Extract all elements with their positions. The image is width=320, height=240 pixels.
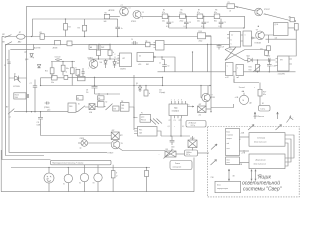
wire junction down — [257, 60, 259, 64]
capacitor C6 — [217, 44, 222, 49]
svg-text:→: → — [158, 154, 160, 156]
svg-text:1000: 1000 — [171, 146, 175, 148]
node y85 r1 — [200, 85, 201, 86]
motor M1 — [239, 95, 248, 104]
capacitor C5 — [219, 19, 224, 28]
wire RP3 right — [176, 153, 185, 155]
capacitor C15 — [92, 77, 98, 94]
potentiometer RP1 arrow — [254, 66, 261, 72]
resistor R16 — [61, 65, 65, 71]
wire y59 — [88, 58, 120, 60]
svg-text:ТВ: ТВ — [121, 143, 123, 145]
box battery — [215, 181, 241, 192]
wire R1 top — [65, 19, 67, 24]
resistor R12 — [265, 50, 269, 55]
wire R1 bottom — [65, 30, 67, 37]
svg-text:4: 4 — [178, 99, 179, 101]
capacitor C10 — [27, 94, 28, 98]
lamp HL1 — [81, 140, 88, 147]
label U5 pins — [276, 59, 293, 66]
svg-text:КПР: КПР — [120, 135, 123, 137]
capacitor C12 — [55, 59, 62, 60]
transistor Q5 — [89, 60, 98, 69]
svg-text:реле: реле — [227, 162, 230, 164]
transistor Q7 — [111, 140, 120, 149]
wire U10 out arrow — [188, 106, 195, 107]
svg-text:Точный: Точный — [239, 86, 245, 89]
svg-text:2к: 2к — [121, 28, 123, 30]
svg-text:КД1: КД1 — [247, 56, 250, 58]
photoresistor arrow 4 — [211, 160, 217, 166]
node C8 top — [269, 59, 270, 60]
transistor Q5 bar — [92, 59, 96, 68]
svg-text:100к: 100к — [66, 68, 70, 70]
node v134 bus — [133, 85, 134, 86]
potentiometer RP2 cross — [111, 132, 119, 140]
svg-text:Сеть: Сеть — [260, 108, 266, 110]
wire U3 out to Q4 — [253, 37, 255, 39]
wire R17 — [71, 62, 73, 86]
wire drop HL2 — [48, 168, 50, 174]
svg-text:0В: 0В — [233, 176, 235, 178]
wire U10 pins top — [172, 101, 186, 104]
switch SA5 — [106, 104, 113, 110]
wire left margin line 1 — [2, 37, 51, 160]
wire PSU loop3 — [285, 143, 288, 166]
node VD7 top — [139, 85, 140, 86]
dashed enclosure — [208, 127, 300, 197]
svg-text:R: R — [115, 57, 116, 59]
wire vertical x211 — [210, 36, 212, 112]
potentiometer RP3 — [165, 151, 176, 157]
wire HL3 down — [67, 183, 69, 192]
wire inner loop to R cluster — [104, 18, 118, 20]
svg-text:552: 552 — [159, 89, 162, 91]
svg-text:осветительной: осветительной — [242, 180, 280, 187]
flip-flop U7 — [236, 65, 244, 76]
wire lamp200 right — [198, 152, 210, 154]
svg-text:220: 220 — [121, 108, 124, 110]
wire RP1 down — [257, 70, 259, 73]
capacitor C4 — [202, 16, 207, 28]
lamp HL1 cross — [82, 141, 87, 146]
wire R2 bottom — [84, 31, 86, 37]
node psu17 — [243, 150, 244, 151]
wire X upper branch — [245, 49, 266, 52]
svg-text:200к: 200к — [199, 41, 203, 43]
svg-text:ВК: ВК — [77, 98, 79, 100]
node y111 c — [34, 111, 35, 112]
svg-text:R5: R5 — [163, 10, 165, 12]
svg-text:ДВ: ДВ — [250, 103, 252, 105]
box relay B7 — [138, 127, 158, 137]
wire R20 — [109, 44, 111, 59]
svg-text:910: 910 — [249, 69, 252, 71]
transistor Q6 bar — [204, 86, 208, 108]
wire U4 top — [288, 28, 294, 30]
box label B9 — [77, 96, 84, 100]
counter U8 — [120, 53, 132, 67]
node R1/top — [65, 18, 66, 19]
wire R4 to Q1 — [110, 15, 120, 17]
svg-text:82к: 82к — [263, 94, 266, 96]
svg-text:220 Вольт: 220 Вольт — [253, 116, 265, 118]
wire Q6 base — [201, 86, 203, 98]
wire R9 right — [206, 35, 212, 37]
resistor R2 — [83, 25, 87, 31]
wire drop HL4 — [84, 165, 86, 174]
switch SA1 — [2, 35, 11, 38]
wire B5 right — [129, 107, 138, 118]
diode VD6 — [113, 59, 116, 68]
resistor R15 — [50, 68, 54, 74]
svg-text:40Р: 40Р — [112, 130, 115, 132]
node y77 b — [162, 77, 163, 78]
wire y136 — [161, 135, 190, 137]
wire U6 down — [234, 76, 259, 83]
photoresistor arrow 2 — [276, 125, 282, 131]
node Q3 emitter — [258, 26, 259, 27]
fuse FU2 cross — [89, 104, 95, 110]
wire emerg down arrow — [228, 169, 229, 181]
wire left bottom corner — [0, 150, 2, 192]
gate U4 — [274, 23, 289, 36]
rounded box lampmain — [170, 161, 192, 170]
svg-text:40к: 40к — [171, 149, 174, 151]
capacitor C8 — [267, 60, 272, 72]
box PSU control — [226, 129, 240, 156]
svg-text:R10: R10 — [45, 70, 48, 72]
wire psu17 — [240, 150, 250, 152]
capacitor C13 — [82, 68, 85, 77]
lamp HL3 — [64, 174, 72, 182]
wire bus y85.5 — [41, 85, 212, 87]
wire HL1 right — [88, 142, 112, 144]
node U9 wire — [161, 56, 162, 57]
svg-text:R31: R31 — [166, 149, 169, 151]
box small B2 — [78, 76, 86, 80]
svg-text:Д814: Д814 — [25, 59, 28, 61]
svg-text:100В: 100В — [37, 125, 41, 127]
svg-text:Переходные (вытяжные) у-? ламп: Переходные (вытяжные) у-? лампы — [52, 163, 84, 165]
svg-text:40Т: 40Т — [199, 104, 202, 106]
svg-text:АТ2М: АТ2М — [53, 46, 58, 49]
node y85 r2 — [209, 85, 210, 86]
box small B8 — [146, 42, 151, 47]
svg-text:напряж: напряж — [227, 138, 232, 140]
svg-text:Блок: Блок — [227, 131, 231, 133]
diode VD2 — [248, 58, 252, 62]
svg-text:ПМ2: ПМ2 — [101, 47, 104, 49]
node lampbus b — [68, 167, 69, 168]
wire bus diagonal taps — [150, 119, 162, 125]
wire ladder rail left — [169, 27, 214, 29]
label U1 pins — [154, 43, 156, 48]
wire y61 — [51, 61, 75, 63]
svg-text:ХХ Гц: ХХ Гц — [186, 154, 190, 156]
wire v234 — [233, 79, 235, 83]
svg-text:8: 8 — [181, 99, 182, 101]
wire HL2 down — [48, 183, 50, 192]
transistor Q2 — [133, 11, 141, 19]
svg-text:блок питания: блок питания — [254, 164, 266, 166]
capacitor C18 — [170, 136, 175, 145]
svg-text:~: ~ — [293, 117, 294, 119]
capacitor C3 — [184, 16, 189, 28]
capacitor C19 — [132, 41, 139, 45]
inverter U5 — [278, 56, 290, 71]
transistor Q4 bar — [258, 32, 262, 40]
box B5 — [120, 103, 129, 112]
node RP2 wire — [114, 135, 115, 136]
wire R13 top — [259, 83, 261, 90]
wire R6-R7 — [185, 15, 197, 17]
fuse FU1 (AT oval) — [17, 34, 25, 39]
wire U10 col2 — [180, 118, 182, 136]
svg-text:С1: С1 — [4, 65, 6, 67]
wire R11 down — [268, 51, 270, 54]
wire R14 — [41, 78, 65, 86]
node v192 top — [192, 51, 193, 52]
wire lamp bus — [11, 167, 150, 169]
node bus85 a — [40, 85, 41, 86]
svg-text:В2: В2 — [262, 103, 264, 105]
svg-text:Р1: Р1 — [141, 113, 143, 115]
wire R7-R8 — [203, 15, 214, 17]
svg-text:R14: R14 — [199, 31, 202, 33]
node y71 a — [257, 71, 258, 72]
svg-text:к155: к155 — [138, 64, 141, 66]
wire switch2 branch — [10, 44, 33, 49]
svg-text:VТ: VТ — [211, 94, 213, 96]
rounded box lamp200 — [185, 150, 198, 156]
photoresistor arrow 1 — [248, 125, 254, 131]
svg-text:50: 50 — [168, 66, 170, 68]
wire R22-SA5 — [95, 106, 106, 108]
node R16 top — [62, 61, 63, 62]
wire long y71 — [158, 71, 296, 73]
diode VD5 — [104, 59, 107, 68]
wire HL5 down — [97, 182, 99, 192]
svg-text:500: 500 — [100, 62, 103, 64]
switch SA3 — [8, 109, 14, 115]
svg-text:R7: R7 — [198, 10, 200, 12]
transistor Q2 bar — [136, 11, 140, 18]
resistor R11 — [267, 46, 271, 51]
svg-text:В1: В1 — [78, 104, 80, 106]
counter U9 output circle — [154, 56, 156, 58]
svg-text:62к: 62к — [180, 12, 183, 14]
wire R23 down — [112, 178, 114, 192]
svg-text:С4: С4 — [207, 22, 209, 24]
counter U9 — [137, 53, 154, 62]
svg-text:Др: Др — [146, 40, 148, 42]
wire R10 down — [266, 30, 297, 56]
photoresistor arrow 3 — [211, 144, 217, 150]
svg-text:20к: 20к — [199, 114, 202, 116]
wire R24 down — [146, 177, 148, 192]
switch SA2 — [5, 42, 12, 46]
svg-text:47к: 47к — [197, 12, 200, 14]
resistor R8 — [214, 14, 220, 19]
svg-text:20 Вольт: 20 Вольт — [188, 122, 197, 124]
wire y136 left — [157, 131, 161, 136]
zener VD3 — [30, 53, 33, 58]
node C4 top — [203, 16, 204, 17]
svg-text:РП: РП — [78, 74, 80, 76]
rounded box Set — [259, 105, 271, 111]
resistor R5 — [162, 14, 168, 19]
wire U9 out — [155, 57, 175, 72]
svg-text:С16: С16 — [272, 66, 275, 68]
svg-text:R3: R3 — [78, 28, 80, 30]
capacitor C14 — [162, 57, 167, 72]
node R17 top — [72, 61, 73, 62]
node y136 b — [180, 135, 181, 136]
wire RP4 top — [192, 136, 194, 140]
wire Q2 to ladder — [141, 15, 162, 17]
svg-text:С5: С5 — [224, 22, 226, 24]
svg-text:R2: R2 — [68, 27, 70, 29]
svg-text:к555ЛН1: к555ЛН1 — [278, 73, 285, 75]
node C2 top — [168, 16, 169, 17]
resistor R6 — [180, 14, 186, 19]
node C3 top — [186, 16, 187, 17]
wire y94 — [95, 93, 121, 95]
switch SA4 — [78, 106, 90, 112]
svg-text:С5: С5 — [159, 62, 161, 64]
svg-text:0,1: 0,1 — [166, 26, 169, 28]
wire bus y111 — [14, 111, 78, 113]
wire VD2 out — [252, 59, 268, 61]
svg-text:250: 250 — [86, 92, 89, 94]
wire R24 top — [146, 168, 148, 171]
gate U3 — [243, 31, 252, 46]
svg-text:2000: 2000 — [15, 97, 19, 99]
wire left margin line 2 — [6, 44, 45, 155]
resistor R18 — [76, 69, 80, 75]
svg-text:реле: реле — [141, 117, 144, 119]
transistor Q6 — [202, 93, 210, 101]
wire vert 207 — [207, 44, 209, 71]
capacitor C1 — [115, 19, 120, 37]
svg-text:аккумуляторов: аккумуляторов — [217, 188, 228, 190]
wire R8 right to corner — [214, 16, 245, 28]
wire C17 corner — [41, 135, 116, 137]
svg-text:системы "Свер": системы "Свер" — [243, 187, 282, 193]
node y111 a — [26, 111, 27, 112]
wire bottom return bus — [1, 191, 194, 193]
box label B10 — [98, 96, 105, 100]
svg-text:R4: R4 — [105, 12, 107, 14]
svg-text:КТ361В: КТ361В — [255, 42, 262, 44]
ground symbol — [287, 115, 294, 122]
svg-text:R27: R27 — [263, 91, 266, 93]
wire plug arrow 1 — [254, 112, 256, 119]
svg-text:блок: блок — [227, 159, 231, 161]
svg-text:к155тм2: к155тм2 — [229, 49, 235, 51]
potentiometer RP1 — [256, 64, 260, 71]
svg-text:Лампа: Лампа — [175, 163, 180, 165]
resistor R19 — [97, 50, 101, 56]
wire R16 — [62, 62, 64, 76]
thyristor VS1 — [9, 76, 27, 83]
wire psu-battery arrow 1 — [251, 170, 252, 181]
svg-text:С11: С11 — [37, 122, 40, 124]
wire drop HL5 — [97, 165, 99, 174]
node ladder right — [243, 27, 244, 28]
resistor R1 — [64, 24, 68, 31]
node bus junction b — [98, 44, 99, 45]
wire RU1 right — [206, 108, 211, 110]
diode VD4 — [37, 64, 40, 67]
wire left margin line 3 — [9, 50, 107, 153]
wire psu-battery arrow 2 — [255, 170, 256, 181]
wire y107 right — [211, 104, 234, 108]
box U1 small — [156, 41, 165, 51]
lamp HL4 — [80, 173, 88, 181]
svg-text:С9: С9 — [222, 47, 224, 49]
wire drop HL3 — [67, 168, 69, 175]
svg-text:Сетевой: Сетевой — [257, 137, 266, 140]
node R2 bus — [84, 36, 85, 37]
svg-text:блок питания: блок питания — [254, 142, 266, 144]
wire plug arrow 2 — [277, 112, 279, 119]
resistor R28 — [290, 18, 295, 22]
svg-text:АВ2: АВ2 — [18, 41, 21, 44]
node v207 — [207, 44, 208, 45]
wire X to diode — [245, 60, 248, 62]
svg-text:С2: С2 — [172, 22, 174, 24]
svg-text:стабилиз: стабилиз — [227, 135, 234, 137]
svg-text:Аварийный: Аварийный — [255, 158, 267, 161]
svg-text:сети: сети — [227, 148, 230, 150]
svg-text:2: 2 — [174, 99, 175, 101]
wire Q4 to U4 — [264, 35, 273, 43]
node y136 a — [170, 135, 171, 136]
label U8 pins — [118, 56, 120, 64]
node lampbus a — [48, 167, 49, 168]
node y94 a — [98, 93, 99, 94]
box mains PSU — [249, 133, 285, 147]
svg-text:С: С — [115, 54, 116, 56]
svg-text:ИЕ2: ИЕ2 — [146, 64, 149, 66]
wire U10 pins bottom — [171, 116, 182, 119]
varistor RU1 — [198, 106, 207, 113]
relay K1 — [55, 40, 61, 44]
relay contact K2 — [64, 75, 68, 79]
svg-text:0,1: 0,1 — [184, 26, 187, 28]
svg-text:20к: 20к — [197, 21, 200, 23]
node R24 bus — [146, 167, 147, 168]
svg-text:ИД1: ИД1 — [174, 108, 178, 110]
node VD2 junction — [257, 59, 258, 60]
svg-text:82к: 82к — [214, 21, 217, 23]
svg-text:1: 1 — [171, 99, 172, 101]
wire psu5 — [240, 162, 250, 164]
svg-text:С6 100: С6 100 — [55, 57, 61, 59]
svg-text:(ПЗМ4): (ПЗМ4) — [44, 107, 50, 109]
svg-text:К2: К2 — [106, 101, 108, 103]
wire U2-U3 — [241, 35, 244, 41]
wire U2 in — [225, 35, 230, 45]
resistor R10 — [294, 24, 298, 31]
svg-text:КТ815: КТ815 — [211, 97, 216, 99]
wire top border loop — [27, 6, 228, 111]
svg-text:кт12: кт12 — [225, 77, 229, 79]
svg-text:0,1: 0,1 — [201, 26, 204, 28]
wire main bus A — [5, 36, 211, 38]
